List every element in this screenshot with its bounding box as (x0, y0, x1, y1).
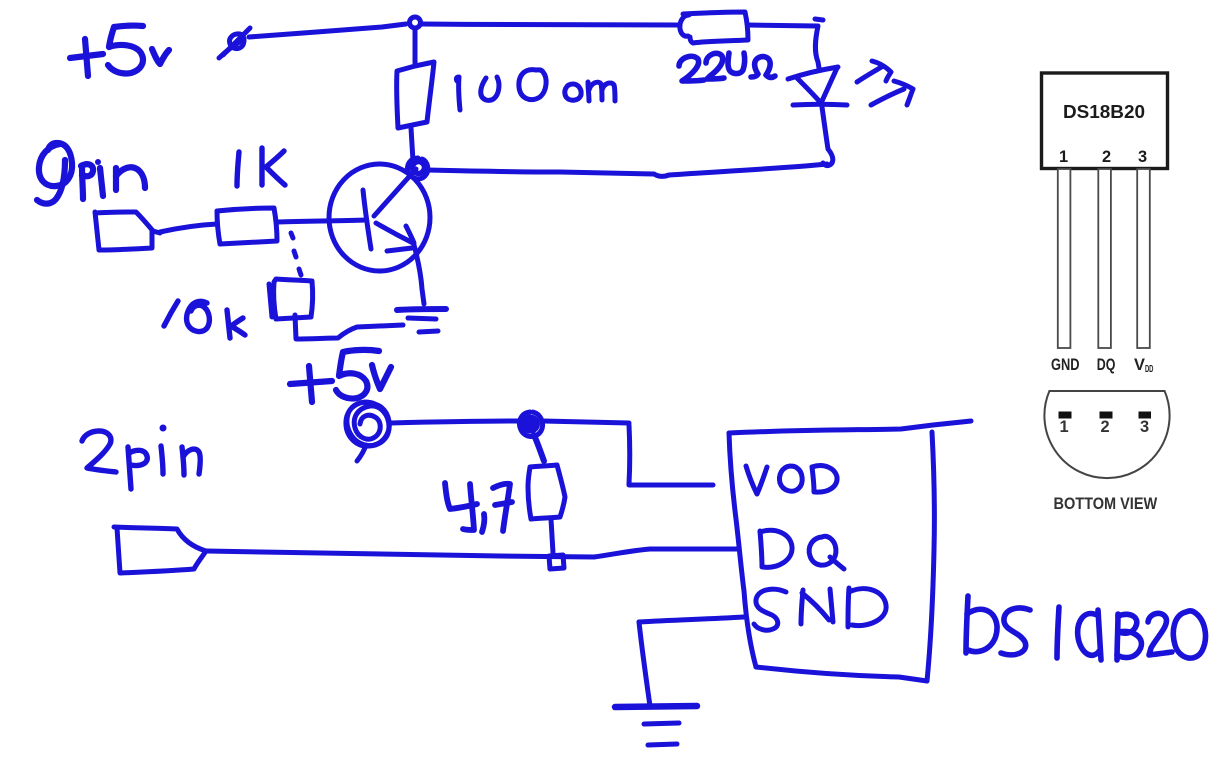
svg-text:1: 1 (1059, 148, 1068, 166)
svg-text:2: 2 (1100, 418, 1109, 436)
svg-text:3: 3 (1140, 418, 1149, 436)
svg-text:2: 2 (1102, 148, 1111, 166)
svg-text:VDD: VDD (1134, 356, 1153, 375)
svg-text:BOTTOM VIEW: BOTTOM VIEW (1054, 495, 1158, 513)
svg-text:GND: GND (1051, 356, 1080, 374)
svg-text:DQ: DQ (1097, 356, 1116, 374)
svg-text:3: 3 (1138, 148, 1147, 166)
svg-text:DS18B20: DS18B20 (1063, 101, 1145, 122)
svg-text:1: 1 (1059, 418, 1068, 436)
